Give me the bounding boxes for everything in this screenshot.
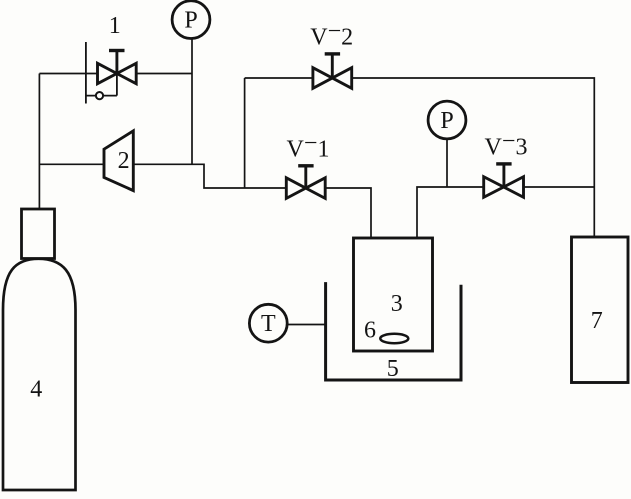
pressure gauge P2: [428, 101, 466, 139]
wire: valve 1 outlet pipe: [136, 73, 192, 75]
svg-text:V−3: V−3: [485, 129, 528, 161]
wire: V-1 outlet pipe down to vessel: [325, 188, 371, 238]
compressor 2: [104, 131, 133, 191]
water bath 5: [326, 282, 461, 380]
column 7: [572, 237, 629, 383]
valve V-3: [484, 164, 524, 197]
svg-text:P: P: [184, 8, 197, 34]
wire: compressor inlet pipe: [39, 163, 104, 165]
svg-text:V−2: V−2: [310, 19, 353, 51]
wire: cylinder riser pipe: [38, 74, 40, 210]
wire: V-2 branch riser: [244, 78, 246, 188]
stir bar 6: [380, 334, 408, 343]
svg-text:6: 6: [364, 318, 376, 344]
wire: thermometer stem: [287, 324, 327, 326]
valve V-1: [286, 166, 325, 199]
wire: regulator inlet pipe: [39, 73, 97, 75]
regulator valve 1: [86, 42, 136, 104]
wire: V-3 outlet pipe: [524, 186, 595, 188]
wire: V-2 line left segment: [245, 77, 313, 79]
pressure gauge P1: [172, 1, 210, 39]
wire: gauge P1 stem riser: [191, 38, 193, 164]
svg-text:V−1: V−1: [287, 131, 330, 163]
svg-text:T: T: [261, 311, 276, 337]
svg-text:7: 7: [591, 308, 603, 334]
svg-text:2: 2: [118, 148, 130, 174]
svg-text:4: 4: [30, 377, 42, 403]
svg-text:P: P: [440, 108, 453, 134]
wire: compressor outlet pipe with step: [133, 164, 286, 188]
wire: V-2 line right segment down to column 7: [352, 78, 595, 237]
wire: vessel right riser and V-3 inlet: [417, 187, 484, 238]
gas cylinder 4: [3, 209, 76, 490]
svg-text:3: 3: [391, 291, 403, 317]
wire: gauge P2 stem: [446, 140, 448, 188]
svg-text:5: 5: [387, 356, 399, 382]
svg-text:1: 1: [109, 13, 121, 39]
valve V-2: [313, 54, 352, 88]
temperature gauge T: [249, 304, 287, 342]
vessel 3: [354, 238, 433, 351]
